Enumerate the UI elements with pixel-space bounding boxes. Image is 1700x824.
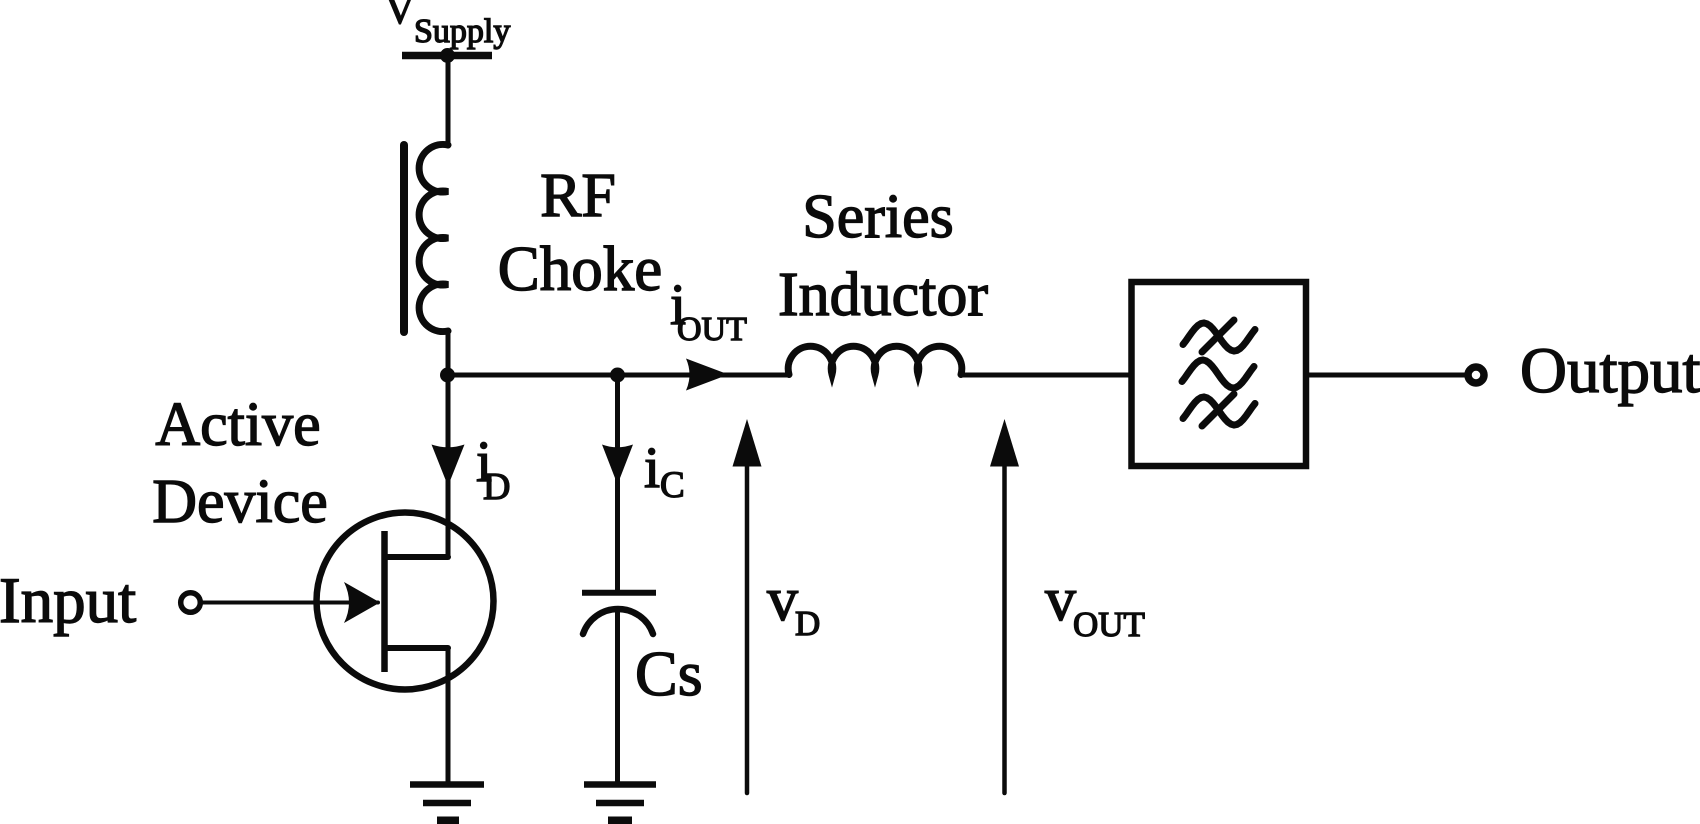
label vD: [767, 566, 820, 643]
svg-text:Device: Device: [152, 468, 328, 536]
svg-text:v: v: [1045, 566, 1076, 634]
label Active Device: [152, 391, 328, 536]
node VSupply label: [385, 0, 510, 50]
output terminal circle: [1468, 367, 1484, 383]
input terminal circle: [181, 593, 201, 613]
junction dot supply: [440, 48, 455, 63]
label iOUT: [670, 272, 747, 348]
ground G2: [584, 785, 656, 821]
arrow iD: [432, 445, 465, 487]
wire node A to series inductor: [448, 373, 790, 378]
svg-text:Cs: Cs: [635, 638, 703, 709]
wire inductor to filter box: [961, 373, 1131, 378]
filter wave 2: [1182, 360, 1254, 388]
arrow vD head: [733, 419, 762, 467]
svg-text:Active: Active: [155, 391, 320, 459]
wire supply to choke: [446, 57, 451, 146]
label iD: [476, 429, 510, 508]
svg-text:D: D: [795, 604, 820, 643]
svg-text:D: D: [483, 466, 510, 508]
RF choke core bar: [400, 145, 408, 332]
svg-text:Input: Input: [0, 565, 136, 637]
svg-text:OUT: OUT: [677, 311, 747, 348]
gate arrowhead: [344, 582, 380, 623]
filter box U1: [1132, 282, 1307, 466]
wire node B to capacitor: [615, 375, 620, 590]
wire capacitor to ground: [615, 611, 620, 784]
wire transistor source to ground: [446, 648, 451, 783]
wire filter box to output: [1306, 373, 1465, 378]
transistor drain lead: [386, 554, 448, 560]
transistor gate bar: [381, 531, 388, 672]
arrow vOUT head: [990, 419, 1019, 467]
transistor source lead: [386, 645, 448, 651]
node B junction dot: [610, 368, 625, 383]
wire input to gate: [202, 601, 378, 605]
filter wave 1 (crossed): [1183, 323, 1255, 351]
wire choke to node A: [446, 331, 451, 375]
svg-text:OUT: OUT: [1073, 605, 1145, 644]
arrow iOUT: [686, 359, 729, 391]
label Output: [1520, 335, 1700, 407]
svg-text:Choke: Choke: [498, 234, 662, 304]
capacitor Cs curved plate: [583, 609, 653, 634]
filter wave 3 slash: [1202, 394, 1234, 426]
label RF Choke: [498, 162, 662, 304]
svg-text:v: v: [767, 566, 798, 634]
inductor series (4 humps): [788, 346, 962, 374]
node A junction dot: [440, 368, 455, 383]
svg-text:V: V: [385, 0, 415, 32]
arrow iC: [602, 445, 633, 485]
svg-text:i: i: [644, 435, 660, 500]
svg-text:Series: Series: [802, 183, 954, 251]
inductor RF choke coil: [419, 144, 448, 331]
filter wave 3 (crossed): [1183, 397, 1255, 425]
ground G1: [410, 785, 484, 821]
svg-text:Inductor: Inductor: [778, 261, 988, 329]
svg-text:RF: RF: [540, 162, 616, 230]
svg-text:C: C: [660, 465, 685, 506]
supply terminal bar: [402, 52, 492, 60]
label vOUT: [1045, 566, 1145, 644]
capacitor Cs top plate: [582, 590, 656, 596]
wire node A to transistor drain: [446, 375, 451, 557]
svg-text:Supply: Supply: [414, 13, 510, 50]
label Cs: [635, 638, 703, 709]
filter wave 1 slash: [1202, 320, 1234, 352]
arrow vOUT shaft: [1002, 466, 1007, 793]
label Input: [0, 565, 136, 637]
arrow vD shaft: [745, 466, 750, 793]
transistor Q1 body circle: [317, 513, 494, 690]
label iC: [644, 435, 685, 506]
svg-text:Output: Output: [1520, 335, 1700, 407]
label Series Inductor: [778, 183, 988, 329]
